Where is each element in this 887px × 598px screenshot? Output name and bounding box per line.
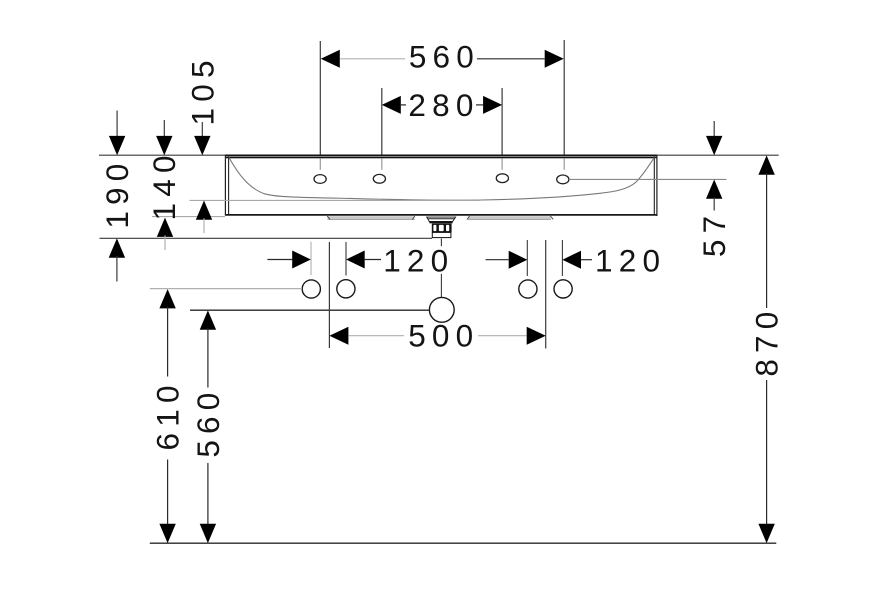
extension line at drain bottom level (190 dim)	[100, 237, 433, 239]
mounting hole circle 4	[554, 280, 572, 298]
dim 190 upper arrow	[116, 111, 118, 138]
dim 120 right: arrows	[486, 259, 509, 261]
dim 610 label	[150, 379, 186, 450]
washbasin body: top rim double band	[225, 155, 657, 157]
dim 120 left pair: extension stubs	[310, 242, 312, 276]
drain fitting dark collar	[429, 221, 452, 223]
svg-text:120: 120	[383, 242, 454, 278]
dim 560 top: extension lines	[319, 41, 321, 155]
dim 610: arrows and line	[159, 289, 175, 308]
dim 120 left: arrows	[267, 259, 292, 261]
dim 120 right pair: extension stubs	[526, 240, 528, 276]
faucet hole ellipse 1	[314, 175, 326, 184]
svg-text:610: 610	[150, 379, 186, 450]
dim 190 lower arrow	[109, 238, 125, 257]
dim 560 bottom: arrows and line	[200, 310, 216, 329]
washbasin left edge double line	[224, 155, 226, 216]
mounting hole circle 3	[519, 280, 537, 298]
washbasin right edge double line	[656, 155, 658, 216]
dim 105 lower arrow	[196, 201, 212, 220]
svg-text:280: 280	[408, 87, 479, 123]
svg-text:120: 120	[595, 242, 666, 278]
dim 560 bottom label	[190, 387, 226, 458]
svg-text:190: 190	[99, 158, 135, 229]
washbasin bottom front edge	[225, 214, 657, 216]
extension line at basin bottom level (140 dim)	[152, 216, 225, 218]
drain fitting tier1 flange	[427, 217, 456, 219]
siphon hole big circle	[429, 297, 454, 322]
mounting hole circle 1	[302, 280, 320, 298]
extension line at mounting-hole level (610 dim)	[150, 288, 302, 290]
dim 560 top: arrows and line	[321, 50, 340, 68]
washbasin top rim extension line right	[657, 154, 779, 156]
dim 57: down arrow at rim level	[713, 121, 715, 137]
bowl interior curve	[229, 158, 654, 201]
drain threaded tailpiece	[432, 224, 452, 233]
svg-text:560: 560	[190, 387, 226, 458]
svg-text:140: 140	[146, 149, 182, 220]
faucet hole ellipse 4	[557, 175, 569, 184]
dim 500: extension lines	[328, 242, 330, 348]
extension line from hole 4 to 57 arrow	[569, 178, 727, 180]
svg-text:500: 500	[408, 318, 479, 354]
dim 105 label	[185, 54, 221, 125]
dim 140 label	[146, 149, 182, 220]
faucet hole ellipse 3	[496, 174, 508, 183]
dim 57: up arrow	[706, 180, 722, 199]
under-basin recess slot right	[468, 216, 551, 219]
extension line at bowl bottom level (105 dim)	[190, 199, 481, 201]
washbasin top rim extension line left	[99, 154, 225, 156]
dim 500: arrows and line	[329, 327, 348, 345]
svg-text:57: 57	[696, 210, 732, 257]
dim 57 label	[696, 210, 732, 257]
under-basin recess slot left	[328, 216, 415, 219]
dim 870 label	[749, 306, 785, 377]
dim 140 upper arrow	[163, 120, 165, 138]
faucet hole ellipse 2	[373, 174, 385, 183]
svg-text:560: 560	[409, 39, 480, 75]
dim 140 lower arrow	[157, 218, 173, 237]
extension line at siphon level (560 dim)	[190, 309, 429, 311]
mounting hole circle 2	[337, 280, 355, 298]
dim 280: arrows and line	[382, 96, 401, 114]
svg-text:870: 870	[749, 306, 785, 377]
dim 105 upper arrow	[201, 122, 203, 138]
drain bottom box	[432, 232, 451, 237]
drain fitting tier2	[428, 219, 455, 222]
dim 870: arrows and line	[758, 155, 774, 174]
drain centre line to siphon hole	[440, 239, 442, 247]
dim 280: extension lines	[381, 88, 383, 155]
dim 190 label	[99, 158, 135, 229]
svg-text:105: 105	[185, 54, 221, 125]
floor line	[150, 542, 777, 544]
